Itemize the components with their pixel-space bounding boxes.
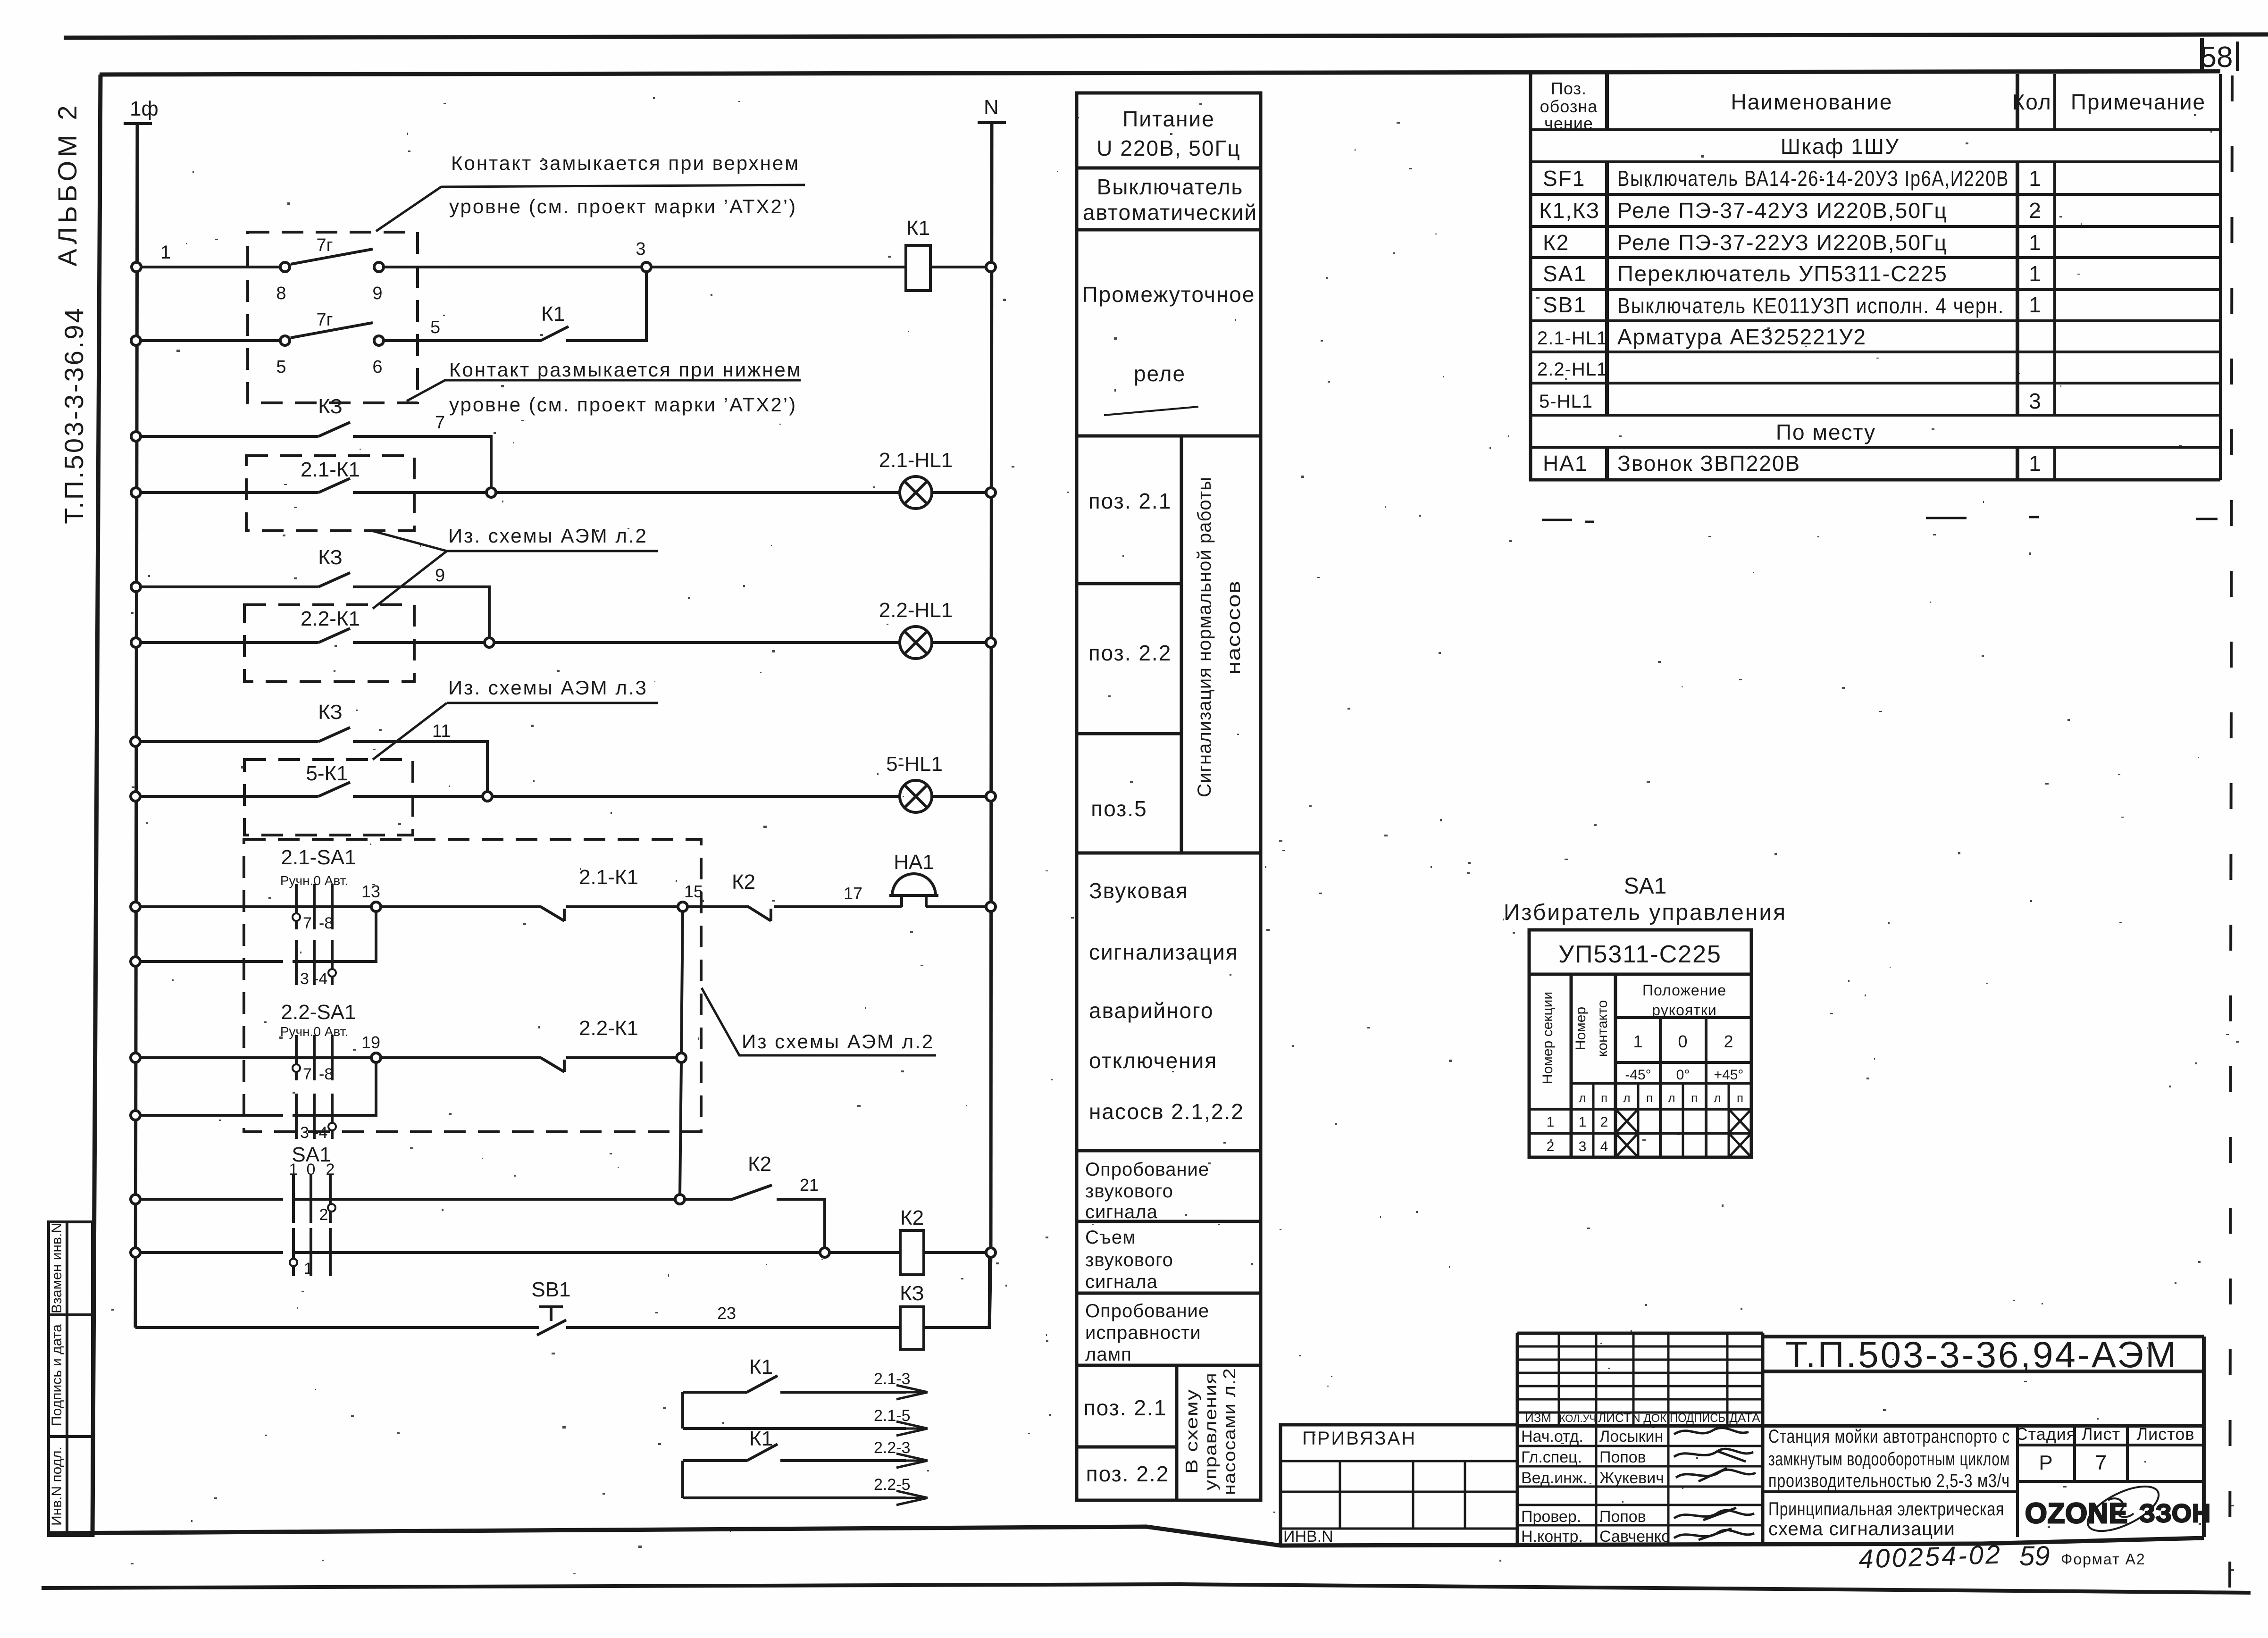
wire rung 6 lamp to N (932, 641, 987, 644)
svg-text:N: N (984, 96, 999, 119)
svg-text:59: 59 (2019, 1541, 2050, 1571)
svg-text:9: 9 (435, 566, 445, 585)
relay coil K1 (906, 245, 930, 291)
svg-text:поз. 2.1: поз. 2.1 (1088, 489, 1172, 513)
svg-text:2.2-HL1: 2.2-HL1 (879, 599, 953, 622)
title block right edge (2202, 1337, 2206, 1537)
selector table header line (1529, 973, 1751, 976)
svg-text:п: п (1691, 1091, 1698, 1105)
sheet right dashed edge (2230, 75, 2232, 1604)
svg-text:SB1: SB1 (531, 1278, 570, 1301)
svg-text:Нач.отд.: Нач.отд. (1521, 1428, 1583, 1446)
svg-text:Т.П.503-3-36.94: Т.П.503-3-36.94 (59, 306, 89, 524)
page right edge tick (2236, 42, 2239, 71)
svg-text:уровне (см. проект марки ’АТХ2: уровне (см. проект марки ’АТХ2’) (449, 195, 797, 217)
svg-text:поз. 2.2: поз. 2.2 (1086, 1462, 1170, 1486)
svg-text:Станция мойки автотранспорто с: Станция мойки автотранспорто с (1768, 1426, 2010, 1447)
svg-text:8: 8 (276, 284, 286, 303)
svg-text:2: 2 (1724, 1032, 1733, 1051)
wire rung 13 to step (777, 1199, 825, 1248)
wire rung 9 to node 15 (566, 905, 678, 908)
svg-text:КЗ: КЗ (318, 546, 343, 569)
dashed enclosure box C (2.2-K1) (244, 605, 414, 682)
wire rung 15 coil to N riser (924, 1257, 989, 1328)
svg-text:л: л (1579, 1091, 1586, 1105)
svg-text:0: 0 (1678, 1032, 1688, 1051)
title box underline (1763, 1370, 2204, 1373)
title box top (1763, 1335, 2204, 1338)
svg-text:рукоятки: рукоятки (1652, 1002, 1716, 1019)
drawing frame bottom (48, 1527, 2204, 1546)
junction nodes on N bus (986, 262, 996, 1257)
svg-text:звукового: звукового (1085, 1250, 1173, 1270)
svg-text:насосами л.2: насосами л.2 (1220, 1368, 1239, 1495)
svg-text:17: 17 (844, 884, 862, 903)
svg-text:1: 1 (1547, 1114, 1555, 1130)
svg-text:Выключатель КЕ011УЗП исполн. 4: Выключатель КЕ011УЗП исполн. 4 черн. (1617, 293, 2004, 318)
revision header line (1517, 1424, 2204, 1428)
wire rung 13 left (140, 1198, 283, 1201)
svg-text:Опробование: Опробование (1085, 1159, 1209, 1180)
svg-text:7: 7 (2095, 1451, 2107, 1474)
wire rung 8 to lamp (353, 795, 900, 798)
revision grid thin rows (1517, 1346, 1763, 1412)
wire riser 2.1 group (681, 1392, 684, 1429)
svg-text:19: 19 (361, 1033, 380, 1052)
page number box divider (2200, 38, 2204, 73)
switch 2.2-SA1 strokes rung11 (296, 1035, 332, 1080)
svg-text:9: 9 (372, 284, 382, 303)
selector table outer box (1529, 930, 1751, 1157)
svg-text:Наименование: Наименование (1731, 90, 1893, 114)
svg-text:1ф: 1ф (130, 97, 159, 120)
svg-text:1: 1 (2029, 451, 2042, 476)
contact K1 aux upper (747, 1376, 778, 1392)
wire rung 2 right and riser to node 3 (566, 272, 646, 341)
svg-text:1: 1 (160, 242, 171, 263)
svg-text:1: 1 (2029, 230, 2042, 255)
svg-text:Попов: Попов (1599, 1508, 1646, 1526)
svg-text:ИНВ.N: ИНВ.N (1283, 1528, 1333, 1546)
svg-text:2: 2 (1547, 1139, 1555, 1154)
wire rung 6 left (140, 641, 318, 644)
wire rung 4 left (140, 491, 318, 494)
svg-text:7г: 7г (317, 235, 333, 255)
svg-text:1: 1 (1633, 1032, 1643, 1051)
wire riser node15 down (680, 911, 683, 1195)
svg-text:л: л (1714, 1091, 1721, 1105)
X marks row1 (1615, 1109, 1751, 1133)
svg-text:Положение: Положение (1642, 982, 1726, 999)
switch 2.2-SA1 strokes rung12 (296, 1094, 332, 1139)
svg-text:0°: 0° (1676, 1067, 1690, 1083)
svg-text:КЗ: КЗ (318, 395, 343, 418)
svg-text:К1: К1 (541, 302, 565, 326)
arrow to 2.1-3 (896, 1385, 928, 1399)
svg-text:Ручн.0 Авт.: Ручн.0 Авт. (280, 1024, 348, 1039)
svg-text:SB1: SB1 (1543, 292, 1587, 317)
dashed enclosure box A (level switch contacts) (248, 232, 418, 403)
svg-text:2: 2 (1600, 1114, 1608, 1130)
wire rung 4 lamp to N (932, 491, 987, 494)
switch 2.2-SA1 position circle rung11 (293, 1064, 300, 1072)
junction nodes on 1ф bus (131, 262, 141, 1257)
wire K1 aux rung 2.2-3 (683, 1459, 906, 1462)
svg-text:уровне (см. проект марки ’АТХ2: уровне (см. проект марки ’АТХ2’) (449, 393, 797, 416)
wire rung 9 left (140, 905, 376, 908)
svg-text:Попов: Попов (1599, 1448, 1646, 1466)
svg-text:5-HL1: 5-HL1 (886, 752, 943, 776)
svg-text:Контакт размыкается при нижнем: Контакт размыкается при нижнем (449, 359, 802, 381)
svg-text:КЗ: КЗ (900, 1282, 924, 1305)
svg-text:Кол.: Кол. (2012, 90, 2059, 114)
wire N bus lower jog (989, 1253, 991, 1328)
svg-text:400254-02: 400254-02 (1858, 1539, 2002, 1574)
svg-text:1: 1 (2029, 166, 2042, 191)
arrow to 2.2-3 (896, 1454, 928, 1468)
svg-text:2.2-К1: 2.2-К1 (579, 1017, 638, 1040)
svg-text:2: 2 (319, 1206, 328, 1224)
svg-text:SF1: SF1 (1543, 166, 1585, 191)
svg-text:Принципиальная электрическая: Принципиальная электрическая (1768, 1499, 2004, 1520)
svg-text:-4: -4 (313, 1124, 327, 1142)
svg-text:Звуковая: Звуковая (1089, 878, 1188, 903)
wire rung 9 to bell (774, 905, 902, 908)
svg-text:поз.5: поз.5 (1091, 796, 1147, 821)
svg-text:п: п (1737, 1091, 1743, 1105)
svg-text:Из. схемы АЭМ л.2: Из. схемы АЭМ л.2 (448, 525, 648, 547)
wire rung 11 node19 to contact (376, 1056, 541, 1059)
svg-text:1: 1 (289, 1161, 298, 1178)
wire rung 1 left (140, 266, 281, 268)
svg-text:Жукевич: Жукевич (1599, 1469, 1664, 1487)
svg-text:обозна: обозна (1540, 97, 1598, 116)
junction node 19 (371, 1053, 381, 1062)
net N terminal tick (978, 121, 1006, 124)
wire rung 6 to lamp (353, 641, 900, 644)
contact K1 aux lower (747, 1444, 778, 1461)
svg-text:58: 58 (2201, 41, 2233, 74)
svg-text:1: 1 (1579, 1114, 1587, 1130)
svg-text:Промежуточное: Промежуточное (1082, 282, 1255, 307)
svg-text:В схему: В схему (1182, 1389, 1201, 1474)
svg-text:К1,КЗ: К1,КЗ (1539, 198, 1600, 223)
junction node 13 (371, 902, 381, 911)
svg-text:3: 3 (1579, 1139, 1587, 1154)
svg-text:схема сигнализации: схема сигнализации (1768, 1519, 1955, 1539)
svg-text:13: 13 (361, 882, 380, 901)
svg-text:0: 0 (307, 1161, 316, 1178)
svg-text:2.1-К1: 2.1-К1 (301, 458, 360, 481)
svg-text:К2: К2 (732, 870, 755, 894)
svg-text:Шкаф 1ШУ: Шкаф 1ШУ (1781, 134, 1900, 159)
svg-text:2.1-3: 2.1-3 (874, 1370, 911, 1388)
parts table outer and grid (1531, 74, 2220, 480)
svg-text:2.2-3: 2.2-3 (874, 1439, 911, 1457)
svg-text:звукового: звукового (1085, 1181, 1173, 1202)
svg-text:Подпись и дата: Подпись и дата (49, 1324, 65, 1426)
switch 2.1-SA1 strokes rung9 (296, 884, 332, 929)
svg-text:7: 7 (303, 1065, 312, 1083)
svg-text:SA1: SA1 (1543, 261, 1587, 286)
svg-text:К2: К2 (748, 1153, 771, 1176)
switch 2.2-SA1 position circle rung12 (328, 1123, 336, 1130)
wire riser 2.2 group (681, 1461, 684, 1498)
svg-text:Н.контр.: Н.контр. (1521, 1528, 1583, 1546)
revision grid box (1517, 1333, 1763, 1546)
svg-text:3: 3 (300, 970, 309, 988)
svg-text:ПОДПИСЬ: ПОДПИСЬ (1670, 1411, 1725, 1425)
svg-text:7: 7 (435, 413, 445, 433)
svg-text:Переключатель УП5311-С225: Переключатель УП5311-С225 (1617, 261, 1948, 286)
svg-text:SA1: SA1 (1624, 874, 1667, 899)
contact K2 bell circuit (687, 907, 771, 921)
wire rung 15 middle (566, 1326, 900, 1329)
svg-text:2.2-5: 2.2-5 (874, 1476, 911, 1494)
switch SA1 position circle rung13 (328, 1204, 335, 1212)
svg-text:замкнутым водооборотным циклом: замкнутым водооборотным циклом (1768, 1449, 2010, 1470)
sheet top border line (64, 34, 2268, 38)
wire rung 10 left (140, 960, 283, 963)
wire 1ф bus (135, 124, 137, 1328)
function column inner divider lower (1175, 1365, 1179, 1500)
svg-text:НА1: НА1 (894, 851, 934, 874)
bell HA1 (889, 874, 938, 907)
svg-text:аварийного: аварийного (1089, 998, 1214, 1023)
svg-text:сигнала: сигнала (1085, 1202, 1158, 1222)
svg-text:ламп: ламп (1085, 1344, 1132, 1365)
svg-text:5: 5 (276, 357, 286, 377)
svg-text:автоматический: автоматический (1083, 200, 1257, 225)
svg-text:2.1-HL1: 2.1-HL1 (1537, 328, 1607, 349)
svg-text:Номер: Номер (1573, 1007, 1589, 1050)
svg-text:Лист: Лист (2082, 1424, 2120, 1444)
svg-text:К1: К1 (749, 1355, 773, 1379)
wire rung 1 to coil (651, 266, 906, 268)
svg-text:2.2-К1: 2.2-К1 (301, 607, 360, 630)
svg-text:2: 2 (326, 1161, 335, 1178)
svg-text:Сигнализация нормальной работы: Сигнализация нормальной работы (1194, 476, 1215, 797)
svg-text:7: 7 (303, 914, 312, 932)
svg-text:-4: -4 (313, 970, 327, 988)
svg-text:отключения: отключения (1089, 1048, 1217, 1073)
drawing frame left (92, 75, 100, 1537)
wire rung 15 SB1 left (135, 1326, 539, 1329)
svg-text:5-HL1: 5-HL1 (1539, 391, 1593, 412)
svg-text:Ручн.0 Авт.: Ручн.0 Авт. (280, 873, 348, 888)
svg-text:К1: К1 (906, 217, 930, 240)
function column row lines (1077, 168, 1261, 1447)
lamp 2.2-HL1 (900, 627, 932, 659)
contact 2.1-K1 lamp circuit (318, 478, 350, 493)
wire rung 1 middle (384, 266, 642, 268)
svg-text:АЛЬБОМ 2: АЛЬБОМ 2 (52, 101, 82, 266)
wire rung 11 left (140, 1056, 376, 1059)
wire rung 7 right with drop (353, 742, 487, 792)
switch 2.1-SA1 position circle rung10 (328, 969, 336, 977)
stray dash marks below table (1542, 517, 2218, 522)
stadia cells (2017, 1426, 2204, 1537)
svg-text:Контакт замыкается при верхнем: Контакт замыкается при верхнем (451, 152, 800, 174)
function column inner divider upper (1180, 436, 1183, 853)
wire rung 11 to riser (566, 1056, 678, 1059)
wire N bus (991, 123, 992, 1253)
svg-text:Из. схемы АЭМ л.3: Из. схемы АЭМ л.3 (448, 677, 648, 699)
svg-text:сигнала: сигнала (1085, 1271, 1158, 1292)
switch SA1 position circle rung14 (290, 1259, 297, 1266)
svg-text:3: 3 (300, 1124, 309, 1142)
svg-text:2.1-HL1: 2.1-HL1 (879, 449, 953, 472)
svg-text:К2: К2 (900, 1206, 924, 1229)
svg-text:реле: реле (1134, 361, 1186, 386)
svg-text:чение: чение (1544, 114, 1593, 133)
svg-text:2.1-5: 2.1-5 (874, 1407, 911, 1425)
svg-text:контакто: контакто (1595, 1000, 1610, 1057)
contact 2.2-K1 lamp circuit (318, 628, 350, 643)
svg-text:6: 6 (372, 357, 382, 377)
svg-text:КЗ: КЗ (318, 701, 343, 724)
wire rung 12 right riser to node19 (293, 1062, 376, 1115)
wire rung 5 right with drop (353, 587, 489, 638)
dashed enclosure box B (2.1-K1) (246, 456, 414, 531)
contact 5-K1 lamp circuit (318, 782, 350, 796)
svg-text:Взамен инв.N: Взамен инв.N (49, 1223, 65, 1313)
wire rung 14 to coil (293, 1251, 900, 1254)
svg-text:-45°: -45° (1625, 1067, 1651, 1083)
svg-text:1: 1 (304, 1260, 313, 1278)
svg-text:2.2-HL1: 2.2-HL1 (1537, 359, 1607, 380)
contact K1 self-hold (541, 326, 569, 341)
svg-text:Опробование: Опробование (1085, 1301, 1209, 1321)
junction node rung13 (675, 1195, 685, 1204)
svg-text:Стадия: Стадия (2016, 1424, 2076, 1444)
svg-text:23: 23 (717, 1304, 736, 1323)
switch SA1 strokes rung14 (293, 1228, 330, 1276)
svg-text:2.1-К1: 2.1-К1 (579, 866, 638, 889)
svg-text:насосв 2.1,2.2: насосв 2.1,2.2 (1089, 1099, 1244, 1124)
arrow to 2.1-5 (896, 1421, 928, 1436)
svg-text:Гл.спец.: Гл.спец. (1521, 1448, 1582, 1466)
svg-text:Номер секции: Номер секции (1540, 992, 1556, 1084)
svg-text:л: л (1668, 1091, 1675, 1105)
drawing frame top (100, 71, 2220, 75)
wire rung 14 left (140, 1251, 283, 1254)
svg-text:Формат А2: Формат А2 (2061, 1551, 2146, 1568)
svg-text:15: 15 (684, 882, 703, 901)
junction node 3 (642, 262, 651, 272)
wire bell to N (926, 905, 987, 908)
svg-text:N ДОК.: N ДОК. (1632, 1412, 1670, 1425)
svg-text:п: п (1601, 1091, 1607, 1105)
svg-text:Реле ПЭ-37-42УЗ И220В,50Гц: Реле ПЭ-37-42УЗ И220В,50Гц (1617, 198, 1948, 223)
contact SQ 7г (5-6) (280, 323, 384, 345)
signature squiggles (1674, 1428, 1756, 1540)
wire rung 8 lamp to N (932, 795, 987, 798)
svg-text:поз. 2.1: поз. 2.1 (1084, 1396, 1167, 1420)
wire rung 8 left (140, 795, 318, 798)
pushbutton SB1 (537, 1307, 566, 1335)
arrow to 2.2-5 (896, 1491, 928, 1505)
svg-text:По месту: По месту (1776, 420, 1876, 444)
wire rung 9 node13 to contact (376, 905, 541, 908)
svg-text:Избиратель управления: Избиратель управления (1504, 900, 1787, 925)
switch SA1 strokes rung13 (293, 1175, 330, 1223)
svg-text:Выключатель: Выключатель (1097, 175, 1244, 199)
svg-text:Провер.: Провер. (1521, 1508, 1581, 1526)
relay coil K3 (900, 1307, 924, 1349)
wire rung 12 left (140, 1114, 283, 1117)
wire rung 3 right with drop (353, 436, 491, 488)
contact 2.2-K1 bell circuit (541, 1058, 564, 1072)
revision grid verticals (1559, 1333, 1727, 1546)
svg-text:п: п (1646, 1091, 1653, 1105)
svg-text:К2: К2 (1543, 230, 1569, 255)
callout АЭМ л.3 leader lines (373, 703, 658, 760)
contact SQ 7г (8-9) (280, 249, 384, 272)
function column outer box (1077, 93, 1261, 1500)
dashed enclosure box E (selector switch group) (244, 839, 701, 1132)
svg-text:Листов: Листов (2137, 1424, 2195, 1444)
svg-text:насосов: насосов (1223, 580, 1244, 675)
relay coil K2 (900, 1230, 924, 1275)
net 1ф terminal tick (124, 122, 152, 125)
wire K1 aux rung 2.1-3 (683, 1391, 906, 1394)
svg-text:+45°: +45° (1714, 1067, 1744, 1083)
sidebar stamp boxes (49, 1222, 92, 1536)
svg-text:К1: К1 (749, 1427, 773, 1450)
OZONE logo (2025, 1477, 2211, 1540)
wire rung 1 coil to N (930, 266, 987, 268)
svg-text:5: 5 (430, 318, 440, 337)
callout upper level note diagonal (376, 185, 805, 231)
svg-text:3: 3 (636, 239, 645, 259)
junction node rung8 (483, 792, 492, 801)
contact K2 pickup (684, 1185, 772, 1199)
junction node rung6 (485, 638, 494, 647)
svg-text:5-К1: 5-К1 (306, 762, 348, 785)
wire K1 aux rung 2.1-5 (683, 1427, 906, 1430)
svg-text:U 220В, 50Гц: U 220В, 50Гц (1096, 136, 1240, 160)
stray underline mark (1104, 407, 1198, 415)
svg-text:НА1: НА1 (1543, 451, 1588, 476)
wire rung 14 coil to N (924, 1251, 987, 1254)
contact 2.1-K1 bell circuit (541, 907, 564, 921)
svg-text:исправности: исправности (1085, 1322, 1201, 1343)
X marks row2 (1615, 1133, 1751, 1157)
wire rung 13 middle (293, 1198, 676, 1201)
wire rung 7 left (140, 740, 318, 743)
svg-text:4: 4 (1600, 1139, 1608, 1154)
svg-text:OZONE: OZONE (2025, 1497, 2128, 1529)
lamp 5-HL1 (900, 780, 932, 812)
wire rung 2 left (140, 339, 281, 342)
switch 2.1-SA1 strokes rung10 (296, 940, 332, 985)
svg-text:Вед.инж.: Вед.инж. (1521, 1469, 1587, 1487)
callout АЭМ л.2 leader lines (372, 531, 658, 609)
name row lines (1517, 1446, 1763, 1525)
svg-text:21: 21 (800, 1175, 819, 1195)
wire rung 5 left (140, 585, 318, 588)
contact K3 rung3 (318, 422, 350, 436)
svg-text:Лосыкин: Лосыкин (1599, 1428, 1663, 1446)
svg-text:Примечание: Примечание (2071, 90, 2206, 114)
svg-text:л: л (1623, 1091, 1630, 1105)
svg-text:Съем: Съем (1085, 1227, 1136, 1248)
callout АЭМ л.2 selector leader (702, 988, 936, 1055)
contact K3 rung5 (318, 573, 350, 587)
parts table col dividers (1605, 74, 1609, 480)
svg-text:-8: -8 (319, 914, 333, 932)
